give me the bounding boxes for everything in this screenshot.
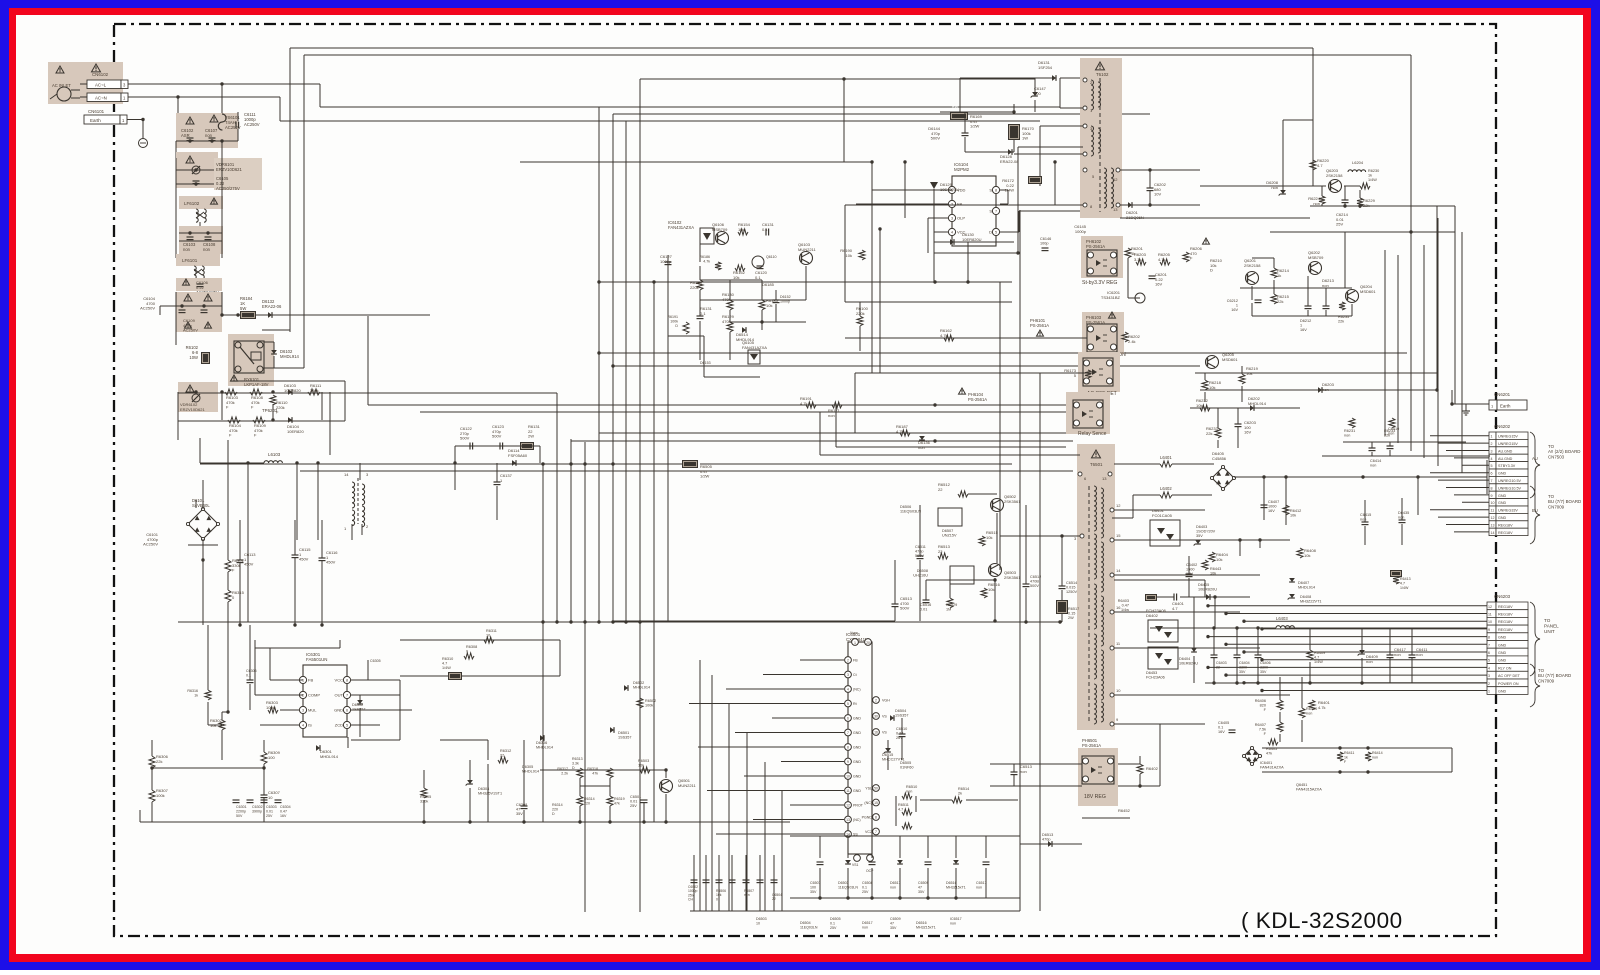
svg-text:BU: BU (1532, 508, 1538, 513)
svg-text:MH3Z22VT1: MH3Z22VT1 (1300, 600, 1322, 604)
svg-text:GND: GND (853, 760, 861, 764)
svg-text:01NF60: 01NF60 (900, 766, 914, 770)
svg-text:2W: 2W (528, 434, 534, 439)
svg-text:C45856: C45856 (1212, 456, 1227, 461)
svg-text:MSD601: MSD601 (1360, 289, 1376, 294)
svg-text:RLY ON: RLY ON (1498, 666, 1512, 670)
svg-text:5: 5 (995, 231, 997, 235)
svg-text:3.3k: 3.3k (572, 761, 579, 765)
svg-text:D6506: D6506 (900, 505, 911, 509)
svg-text:D: D (1210, 268, 1213, 273)
svg-text:R6414: R6414 (1372, 751, 1383, 755)
svg-text:15: 15 (1116, 533, 1121, 538)
svg-text:35V: 35V (516, 812, 523, 816)
svg-text:REG18V: REG18V (1498, 605, 1513, 609)
svg-text:10: 10 (486, 634, 490, 638)
svg-text:450V: 450V (244, 562, 254, 567)
svg-text:22: 22 (1216, 665, 1220, 669)
svg-text:2.4k: 2.4k (1128, 339, 1136, 344)
svg-text:1/2W: 1/2W (970, 124, 980, 129)
svg-text:L6401: L6401 (1160, 455, 1172, 460)
svg-text:10k: 10k (846, 253, 852, 258)
svg-text:R6314: R6314 (584, 797, 595, 801)
svg-text:CH: CH (688, 898, 693, 902)
svg-text:330k: 330k (310, 388, 319, 393)
svg-text:2: 2 (875, 698, 877, 702)
svg-text:4: 4 (847, 687, 849, 691)
svg-text:9: 9 (1491, 494, 1493, 498)
svg-text:Vsen: Vsen (850, 631, 858, 635)
svg-text:35V: 35V (890, 926, 897, 930)
svg-text:100k: 100k (645, 704, 653, 708)
svg-text:1000: 1000 (1268, 505, 1276, 509)
svg-text:1/4W: 1/4W (1400, 586, 1409, 590)
svg-text:C6514: C6514 (1066, 581, 1077, 585)
svg-text:220: 220 (584, 801, 590, 805)
svg-text:C6509: C6509 (890, 917, 901, 921)
svg-text:35V: 35V (1196, 534, 1203, 538)
svg-text:1000p: 1000p (660, 259, 672, 264)
svg-text:10ERB20U: 10ERB20U (1198, 588, 1217, 592)
svg-text:Rt: Rt (853, 702, 857, 706)
svg-text:22k: 22k (1384, 434, 1390, 438)
svg-text:GND: GND (1498, 516, 1507, 520)
svg-text:non: non (183, 247, 191, 252)
svg-text:D6304: D6304 (478, 787, 489, 791)
svg-text:R6412: R6412 (1290, 509, 1301, 513)
svg-text:IC6401: IC6401 (1260, 761, 1272, 765)
svg-text:D6501: D6501 (618, 731, 629, 735)
svg-text:AU: AU (1532, 456, 1538, 461)
svg-text:0.15: 0.15 (1068, 612, 1075, 616)
svg-text:2k: 2k (958, 792, 962, 796)
svg-text:2SK3561: 2SK3561 (1004, 499, 1021, 504)
svg-text:C6303: C6303 (266, 805, 277, 809)
svg-text:1/4W: 1/4W (442, 666, 451, 670)
svg-text:4: 4 (302, 724, 304, 728)
svg-text:500V: 500V (900, 606, 910, 611)
svg-text:14: 14 (344, 472, 349, 477)
svg-text:6: 6 (346, 709, 348, 713)
svg-text:VCC: VCC (335, 678, 344, 683)
svg-text:D6504: D6504 (800, 921, 811, 925)
svg-text:7: 7 (995, 210, 997, 214)
svg-text:CN6203: CN6203 (1494, 594, 1511, 599)
svg-text:2: 2 (1488, 682, 1490, 686)
svg-text:OLP: OLP (957, 216, 965, 221)
svg-text:Earth: Earth (90, 118, 101, 123)
svg-text:4.7k: 4.7k (1158, 257, 1166, 262)
svg-text:CN7009: CN7009 (1548, 504, 1565, 509)
svg-text:FCH23A06: FCH23A06 (1146, 676, 1165, 680)
svg-text:S4VB60L: S4VB60L (192, 503, 210, 508)
svg-text:UNREG15V: UNREG15V (1498, 435, 1518, 439)
svg-text:FAN431AZXA: FAN431AZXA (742, 345, 767, 350)
svg-text:MSB709: MSB709 (712, 227, 728, 232)
svg-text:47k: 47k (592, 771, 598, 775)
svg-text:ZCD: ZCD (335, 723, 343, 728)
svg-text:Ct: Ct (853, 673, 857, 677)
svg-text:1: 1 (1491, 435, 1493, 439)
svg-text:1000p: 1000p (780, 299, 790, 303)
svg-text:non: non (1416, 652, 1423, 657)
svg-text:10k: 10k (733, 275, 739, 280)
svg-text:3: 3 (847, 673, 849, 677)
svg-text:VC2: VC2 (865, 830, 872, 834)
svg-text:R6402: R6402 (1146, 766, 1159, 771)
svg-text:REG18V: REG18V (1498, 531, 1513, 535)
svg-text:C6508: C6508 (862, 881, 873, 885)
svg-text:10k: 10k (766, 303, 772, 308)
svg-text:T6501: T6501 (1090, 462, 1103, 467)
svg-text:0.1: 0.1 (830, 921, 835, 925)
svg-text:2SK2158: 2SK2158 (1326, 173, 1343, 178)
svg-text:47: 47 (918, 885, 922, 889)
svg-text:PS-2561A: PS-2561A (1086, 244, 1105, 249)
svg-text:MSD601: MSD601 (1222, 357, 1238, 362)
svg-text:R6319: R6319 (614, 797, 625, 801)
svg-text:470p: 470p (1042, 838, 1050, 842)
svg-text:470k: 470k (722, 297, 731, 302)
svg-text:47: 47 (516, 808, 520, 812)
svg-text:16V: 16V (280, 814, 287, 818)
svg-text:10ERB20U: 10ERB20U (1179, 662, 1198, 666)
svg-text:1/4w: 1/4w (1121, 608, 1129, 612)
svg-text:12: 12 (1116, 503, 1121, 508)
svg-text:UNREG10.5V: UNREG10.5V (1498, 479, 1521, 483)
svg-text:R6311: R6311 (486, 629, 497, 633)
svg-text:( KDL-32S2000: ( KDL-32S2000 (1241, 908, 1403, 933)
svg-text:5W: 5W (240, 306, 246, 311)
svg-text:14: 14 (1116, 568, 1121, 573)
svg-text:2SK3561: 2SK3561 (1004, 575, 1021, 580)
svg-text:D6152: D6152 (780, 295, 791, 299)
svg-text:C6414: C6414 (1370, 459, 1381, 463)
svg-text:3300: 3300 (1239, 665, 1247, 669)
svg-text:3300: 3300 (1260, 665, 1268, 669)
svg-text:R6191: R6191 (667, 315, 678, 319)
svg-text:0.01: 0.01 (266, 809, 273, 813)
svg-text:R6510: R6510 (906, 785, 917, 789)
svg-text:10E4820U: 10E4820U (940, 187, 959, 192)
svg-text:10W: 10W (189, 355, 198, 360)
svg-text:D6153: D6153 (700, 361, 711, 365)
svg-text:AC250V: AC250V (143, 542, 158, 547)
svg-text:10k: 10k (988, 587, 994, 592)
svg-text:10k: 10k (1196, 403, 1202, 408)
svg-text:220: 220 (552, 807, 558, 811)
svg-text:D6306: D6306 (536, 741, 547, 745)
svg-text:OUT: OUT (335, 693, 344, 698)
svg-text:10k: 10k (1216, 557, 1222, 562)
svg-text:12: 12 (846, 803, 850, 807)
svg-text:1/4W: 1/4W (1314, 660, 1323, 664)
svg-text:16V: 16V (1155, 282, 1162, 287)
svg-text:21DQ06N: 21DQ06N (1126, 215, 1144, 220)
svg-text:3900p: 3900p (252, 809, 262, 813)
svg-text:0: 0 (716, 897, 718, 901)
svg-text:C6517: C6517 (976, 881, 987, 885)
svg-text:18V REG: 18V REG (1084, 794, 1106, 800)
svg-text:FAN431AZXA: FAN431AZXA (668, 225, 694, 230)
svg-text:R6502: R6502 (645, 699, 656, 703)
svg-text:5: 5 (1488, 659, 1490, 663)
svg-text:16V: 16V (1268, 509, 1275, 513)
svg-text:0.015: 0.015 (1066, 586, 1076, 590)
svg-text:1k: 1k (1277, 273, 1281, 278)
svg-text:22: 22 (500, 754, 504, 758)
svg-text:100k: 100k (670, 319, 678, 323)
svg-text:UHZ16U: UHZ16U (913, 574, 928, 578)
svg-text:non: non (1394, 652, 1401, 657)
svg-text:D6453: D6453 (1146, 671, 1157, 675)
svg-text:R6503: R6503 (638, 759, 649, 763)
svg-text:non: non (950, 921, 956, 925)
svg-text:Q6110: Q6110 (766, 255, 777, 259)
svg-text:PROT: PROT (853, 803, 864, 807)
svg-text:1k: 1k (1368, 174, 1372, 178)
svg-text:MH3Z15xT1: MH3Z15xT1 (916, 925, 936, 929)
svg-text:1: 1 (302, 679, 304, 683)
svg-text:C6212: C6212 (1227, 299, 1238, 303)
svg-text:C6305: C6305 (370, 659, 381, 663)
svg-text:MH3Z5V1ST1: MH3Z5V1ST1 (478, 792, 502, 796)
svg-text:D6507: D6507 (942, 529, 953, 533)
svg-text:25V: 25V (1336, 222, 1343, 227)
svg-text:T6102: T6102 (1096, 72, 1109, 77)
svg-text:1SF254: 1SF254 (1038, 65, 1053, 70)
svg-text:4.7k: 4.7k (1318, 705, 1326, 710)
svg-text:10: 10 (1488, 620, 1492, 624)
svg-text:VS1: VS1 (852, 863, 859, 867)
svg-text:16V: 16V (1231, 308, 1238, 312)
svg-text:D6404: D6404 (1179, 657, 1190, 661)
svg-text:R6517: R6517 (1068, 607, 1079, 611)
svg-text:non: non (1322, 387, 1329, 392)
svg-text:R6514: R6514 (958, 787, 969, 791)
svg-text:1500: 1500 (1186, 568, 1194, 572)
svg-text:C6507: C6507 (810, 881, 821, 885)
svg-text:D6502: D6502 (633, 681, 644, 685)
svg-text:FB: FB (957, 202, 962, 207)
svg-text:LF6101: LF6101 (182, 258, 198, 263)
svg-text:6: 6 (1491, 472, 1493, 476)
svg-text:1/4W: 1/4W (1005, 188, 1015, 193)
svg-text:C6402: C6402 (1186, 563, 1197, 567)
svg-text:AC~N: AC~N (95, 96, 107, 101)
svg-text:D6517: D6517 (862, 921, 873, 925)
svg-text:GND: GND (1498, 643, 1507, 647)
svg-text:4.7: 4.7 (1172, 606, 1178, 611)
svg-text:R6452: R6452 (1118, 808, 1131, 813)
svg-text:13: 13 (1113, 207, 1118, 212)
svg-text:4: 4 (1491, 457, 1493, 461)
svg-text:16V: 16V (1218, 730, 1225, 734)
svg-text:500V: 500V (1030, 584, 1039, 588)
svg-text:7: 7 (875, 830, 877, 834)
svg-text:0.47: 0.47 (280, 809, 287, 813)
svg-text:1SS357: 1SS357 (618, 736, 632, 740)
svg-text:1: 1 (1236, 304, 1238, 308)
svg-text:Q6451: Q6451 (1296, 783, 1307, 787)
svg-text:L6403: L6403 (1276, 616, 1288, 621)
svg-text:non: non (890, 885, 896, 889)
svg-text:D6408: D6408 (1300, 595, 1311, 599)
svg-text:2: 2 (847, 658, 849, 662)
svg-text:2.2k: 2.2k (561, 771, 568, 775)
svg-text:non: non (976, 885, 982, 889)
svg-text:non: non (828, 413, 835, 418)
svg-text:500V: 500V (492, 434, 502, 439)
svg-text:PS-2561A: PS-2561A (968, 397, 987, 402)
svg-text:10: 10 (1116, 688, 1121, 693)
svg-text:35V: 35V (1239, 670, 1246, 674)
svg-text:12: 12 (1491, 516, 1495, 520)
svg-text:R6403: R6403 (1118, 599, 1129, 603)
svg-text:C6304: C6304 (280, 805, 291, 809)
svg-text:16V: 16V (1244, 430, 1251, 435)
svg-text:AU.GND: AU.GND (1498, 457, 1513, 461)
svg-text:D6517: D6517 (890, 881, 901, 885)
svg-text:non: non (1306, 712, 1312, 716)
svg-text:1250V: 1250V (1066, 590, 1077, 594)
svg-text:D6212: D6212 (1300, 319, 1311, 323)
svg-text:R6314: R6314 (552, 803, 563, 807)
svg-text:0.47: 0.47 (1122, 604, 1129, 608)
svg-text:FC01CA05: FC01CA05 (1152, 513, 1173, 518)
svg-text:4.7k: 4.7k (896, 429, 904, 434)
svg-text:7: 7 (1488, 643, 1490, 647)
svg-text:D: D (552, 812, 555, 816)
svg-text:5: 5 (847, 702, 849, 706)
svg-text:R6313: R6313 (572, 757, 583, 761)
svg-text:C6516: C6516 (920, 603, 931, 607)
svg-text:(NC): (NC) (853, 818, 861, 822)
svg-text:LF6102: LF6102 (184, 201, 200, 206)
svg-text:D6405: D6405 (1198, 583, 1209, 587)
svg-text:820: 820 (1260, 704, 1266, 708)
svg-text:2: 2 (1491, 442, 1493, 446)
svg-text:22: 22 (938, 487, 943, 492)
svg-text:GND: GND (334, 708, 343, 713)
svg-text:11: 11 (846, 789, 850, 793)
svg-text:6: 6 (1488, 651, 1490, 655)
svg-text:1SOD?20V: 1SOD?20V (1196, 530, 1216, 534)
svg-text:MUN2211: MUN2211 (678, 783, 696, 788)
svg-text:D6516: D6516 (916, 921, 927, 925)
svg-text:non: non (1344, 434, 1350, 438)
svg-text:D6185: D6185 (762, 282, 775, 287)
svg-text:1SS357: 1SS357 (895, 714, 909, 718)
svg-text:POWER ON: POWER ON (1498, 682, 1519, 686)
svg-text:100p: 100p (1040, 242, 1048, 246)
svg-text:ASR: ASR (181, 133, 190, 138)
svg-text:MHDL914: MHDL914 (1298, 586, 1315, 590)
svg-text:10ER820: 10ER820 (284, 388, 301, 393)
svg-text:50: 50 (874, 786, 878, 790)
svg-text:non: non (205, 133, 213, 138)
svg-text:MHDL914: MHDL914 (320, 754, 339, 759)
svg-text:10: 10 (756, 921, 760, 925)
svg-text:25V: 25V (266, 814, 273, 818)
svg-text:D6505: D6505 (900, 761, 911, 765)
svg-text:220k: 220k (690, 285, 699, 290)
svg-text:AC OFF DET: AC OFF DET (1498, 674, 1521, 678)
svg-text:IC6517: IC6517 (950, 917, 962, 921)
svg-text:11EQS03LN: 11EQS03LN (900, 510, 921, 514)
svg-text:MHDL914: MHDL914 (280, 354, 300, 359)
svg-text:non: non (1366, 659, 1373, 664)
svg-text:M2PM2: M2PM2 (954, 167, 970, 172)
svg-text:13: 13 (1491, 523, 1495, 527)
svg-text:non: non (1372, 755, 1378, 759)
svg-text:4.7k: 4.7k (800, 401, 808, 406)
svg-text:10k: 10k (638, 764, 644, 768)
svg-text:(NC): (NC) (864, 801, 872, 805)
svg-text:0.1: 0.1 (762, 227, 768, 232)
svg-text:R6411: R6411 (1344, 751, 1354, 755)
svg-text:FSF05A60: FSF05A60 (508, 453, 528, 458)
svg-text:11: 11 (1491, 509, 1495, 513)
svg-text:AC250/275V: AC250/275V (216, 186, 240, 191)
svg-text:LKP1AF-18V: LKP1AF-18V (244, 382, 269, 387)
svg-text:35V: 35V (918, 890, 925, 894)
svg-text:11: 11 (1488, 613, 1492, 617)
svg-text:CN6102: CN6102 (92, 72, 109, 77)
svg-text:S: S (989, 209, 992, 214)
svg-text:GND: GND (1498, 472, 1507, 476)
svg-text:ERZV10D621: ERZV10D621 (180, 407, 205, 412)
svg-text:470B: 470B (1030, 580, 1039, 584)
svg-text:5: 5 (346, 724, 348, 728)
svg-text:VGH: VGH (882, 698, 890, 702)
svg-text:2W: 2W (1068, 616, 1074, 620)
svg-text:R6233: R6233 (1384, 429, 1395, 433)
svg-text:1/4W: 1/4W (1368, 178, 1377, 182)
svg-text:R6511: R6511 (898, 803, 909, 807)
svg-text:8: 8 (1491, 486, 1493, 490)
svg-text:UNREG10.5V: UNREG10.5V (1498, 486, 1521, 490)
svg-text:C6405: C6405 (1218, 721, 1229, 725)
svg-text:10V: 10V (1154, 192, 1161, 197)
svg-text:1k: 1k (1344, 755, 1348, 759)
svg-text:10k: 10k (1209, 385, 1215, 390)
svg-text:1000p: 1000p (1075, 229, 1087, 234)
svg-text:C6146: C6146 (1040, 237, 1051, 241)
svg-text:2SK2158: 2SK2158 (1244, 263, 1261, 268)
svg-text:UNREG15V: UNREG15V (1498, 442, 1518, 446)
svg-text:UNIT: UNIT (1544, 629, 1555, 634)
svg-text:OCP: OCP (866, 869, 874, 873)
svg-text:500V: 500V (460, 436, 470, 441)
svg-text:ERZV10D621: ERZV10D621 (216, 167, 243, 172)
svg-text:3.3k: 3.3k (1134, 257, 1142, 262)
svg-text:REG18V: REG18V (1498, 523, 1513, 527)
svg-text:22k: 22k (1206, 431, 1212, 436)
svg-text:1: 1 (854, 641, 856, 645)
svg-text:R6409: R6409 (1314, 651, 1325, 655)
svg-text:D6407: D6407 (1298, 581, 1309, 585)
svg-text:REG18V: REG18V (1498, 628, 1513, 632)
svg-text:30: 30 (874, 714, 878, 718)
svg-text:MH3Z15xT1: MH3Z15xT1 (946, 885, 966, 889)
svg-text:4.7: 4.7 (898, 808, 903, 812)
svg-text:D6435: D6435 (1398, 511, 1409, 515)
svg-text:10: 10 (846, 774, 850, 778)
svg-text:R6312: R6312 (500, 749, 511, 753)
svg-text:D6503: D6503 (756, 917, 767, 921)
svg-text:4.7: 4.7 (442, 662, 447, 666)
